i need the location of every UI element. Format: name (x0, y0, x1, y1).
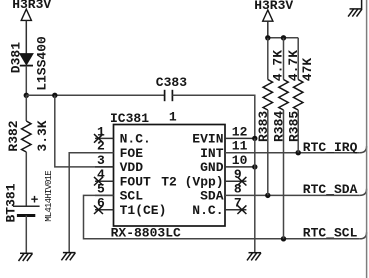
pin 5 stub (SCL) (95, 194, 114, 196)
junction node (rail/R383) (265, 35, 270, 40)
svg-text:6: 6 (97, 196, 105, 211)
svg-text:RTC_SCL: RTC_SCL (303, 226, 358, 241)
svg-text:2: 2 (97, 139, 105, 154)
resistor R384 (279, 80, 288, 111)
svg-text:C383: C383 (156, 75, 187, 90)
no-connect X pin 1 (94, 134, 103, 143)
power flag H3R3V (right) (254, 0, 293, 21)
pin 8 stub (SDA) / RTC_SDA net (225, 194, 360, 196)
wire rail junction to R382 (25, 95, 27, 121)
svg-text:3.3K: 3.3K (35, 120, 50, 151)
svg-text:IC381: IC381 (110, 111, 149, 126)
svg-text:VDD: VDD (120, 160, 144, 175)
wire R383 to SDA (267, 110, 269, 195)
svg-text:T1(CE): T1(CE) (120, 203, 167, 218)
svg-text:H3R3V: H3R3V (254, 0, 293, 13)
svg-text:1: 1 (97, 124, 105, 139)
svg-text:1: 1 (169, 109, 177, 124)
bus entry arc RTC_IRQ (360, 146, 367, 153)
ground (FOE) (61, 253, 75, 261)
junction node (GND stub/column) (252, 164, 257, 169)
power flag H3R3V (left) (12, 0, 51, 20)
ground (top right) (348, 0, 362, 17)
pin 12 stub (EVIN) (225, 137, 255, 139)
svg-text:9: 9 (234, 167, 242, 182)
svg-text:EVIN: EVIN (192, 132, 223, 147)
svg-text:R383: R383 (256, 111, 271, 142)
bus entry arc RTC_SDA (360, 189, 367, 196)
svg-text:12: 12 (232, 124, 248, 139)
svg-text:8: 8 (234, 181, 242, 196)
wire C383 right to GND column (172, 95, 254, 138)
svg-text:INT: INT (200, 146, 224, 161)
wire rail corner to R385 (297, 38, 299, 80)
pin 3 stub (VDD) (95, 166, 114, 168)
svg-text:SDA: SDA (200, 189, 224, 204)
ground (battery) (19, 253, 33, 261)
resistor R382 (22, 121, 31, 152)
svg-text:7: 7 (234, 196, 242, 211)
svg-text:D381: D381 (9, 42, 24, 73)
pin 1 stub (N.C.) (95, 137, 114, 139)
wire rail to R384 (283, 38, 285, 80)
no-connect X pin 6 (94, 205, 103, 214)
svg-text:5: 5 (97, 181, 105, 196)
svg-text:N.C.: N.C. (120, 132, 151, 147)
svg-text:47K: 47K (300, 58, 315, 82)
wire SCL route (left and bottom) (84, 195, 360, 238)
pull-up rail wire (268, 37, 298, 39)
wire VDD rail (left segment to C383) (26, 94, 164, 96)
pin 11 stub (INT) / RTC_IRQ net (225, 152, 360, 154)
junction node (R383/SDA) (265, 193, 270, 198)
svg-text:11: 11 (232, 139, 248, 154)
junction node (diode/R382/rail) (24, 93, 29, 98)
wire battery to ground (25, 216, 27, 254)
wire diode to rail (25, 66, 27, 96)
pin 7 stub (N.C.) (225, 209, 246, 211)
no-connect X pin 7 (237, 205, 246, 214)
svg-text:FOE: FOE (120, 146, 144, 161)
pin 10 stub (GND) (225, 166, 255, 168)
ground (IC GND) (247, 253, 261, 261)
resistor R385 (294, 80, 303, 111)
no-connect X pin 4 (94, 177, 103, 186)
wire power to diode (25, 20, 27, 53)
wire FOE to ground (69, 153, 113, 253)
svg-text:RTC_SDA: RTC_SDA (303, 182, 358, 197)
battery BT381 (13, 192, 40, 215)
wire R384 to SCL (283, 110, 285, 239)
svg-text:R382: R382 (6, 120, 21, 151)
IC381 box (114, 125, 226, 227)
junction node (EVIN/GND column) (252, 136, 257, 141)
capacitor C383 (165, 90, 173, 101)
svg-text:RTC_IRQ: RTC_IRQ (303, 140, 358, 155)
svg-text:H3R3V: H3R3V (12, 0, 51, 12)
diode D381 (20, 54, 33, 66)
wire R385 to IRQ (297, 110, 299, 153)
svg-text:SCL: SCL (120, 189, 144, 204)
svg-text:L1SS400: L1SS400 (34, 36, 49, 91)
wire power to pull-up rail (267, 21, 269, 38)
svg-text:GND: GND (200, 160, 224, 175)
svg-text:4: 4 (97, 167, 105, 182)
svg-text:R385: R385 (286, 111, 301, 142)
wire R382 to battery (25, 152, 27, 206)
junction node (rail/R384) (281, 35, 286, 40)
GND column wire down (254, 138, 256, 252)
svg-text:N.C.: N.C. (192, 203, 223, 218)
svg-text:3: 3 (97, 153, 105, 168)
svg-text:T2 (Vpp): T2 (Vpp) (161, 175, 223, 190)
pin 4 stub (FOUT) (95, 180, 114, 182)
pin 9 stub (T2 (Vpp)) (225, 180, 246, 182)
no-connect X pin 9 (237, 177, 246, 186)
svg-text:R384: R384 (272, 111, 287, 142)
resistor R383 (263, 80, 272, 111)
pin 6 stub (T1(CE)) (95, 209, 114, 211)
svg-text:+: + (31, 192, 39, 207)
junction node (R385/IRQ) (296, 150, 301, 155)
svg-text:ML414HIV01E: ML414HIV01E (44, 171, 54, 222)
bus entry arc RTC_SCL (360, 232, 367, 239)
wire VDD tap to pin 3 (55, 95, 114, 167)
junction node (VDD tap) (52, 93, 57, 98)
junction node (R384/SCL) (281, 236, 286, 241)
bus line (right edge) (366, 0, 368, 278)
pin 2 stub (FOE) (95, 152, 114, 154)
svg-text:BT381: BT381 (3, 183, 18, 222)
wire rail to R383 (267, 38, 269, 80)
svg-text:FOUT: FOUT (120, 175, 151, 190)
svg-text:10: 10 (232, 153, 248, 168)
